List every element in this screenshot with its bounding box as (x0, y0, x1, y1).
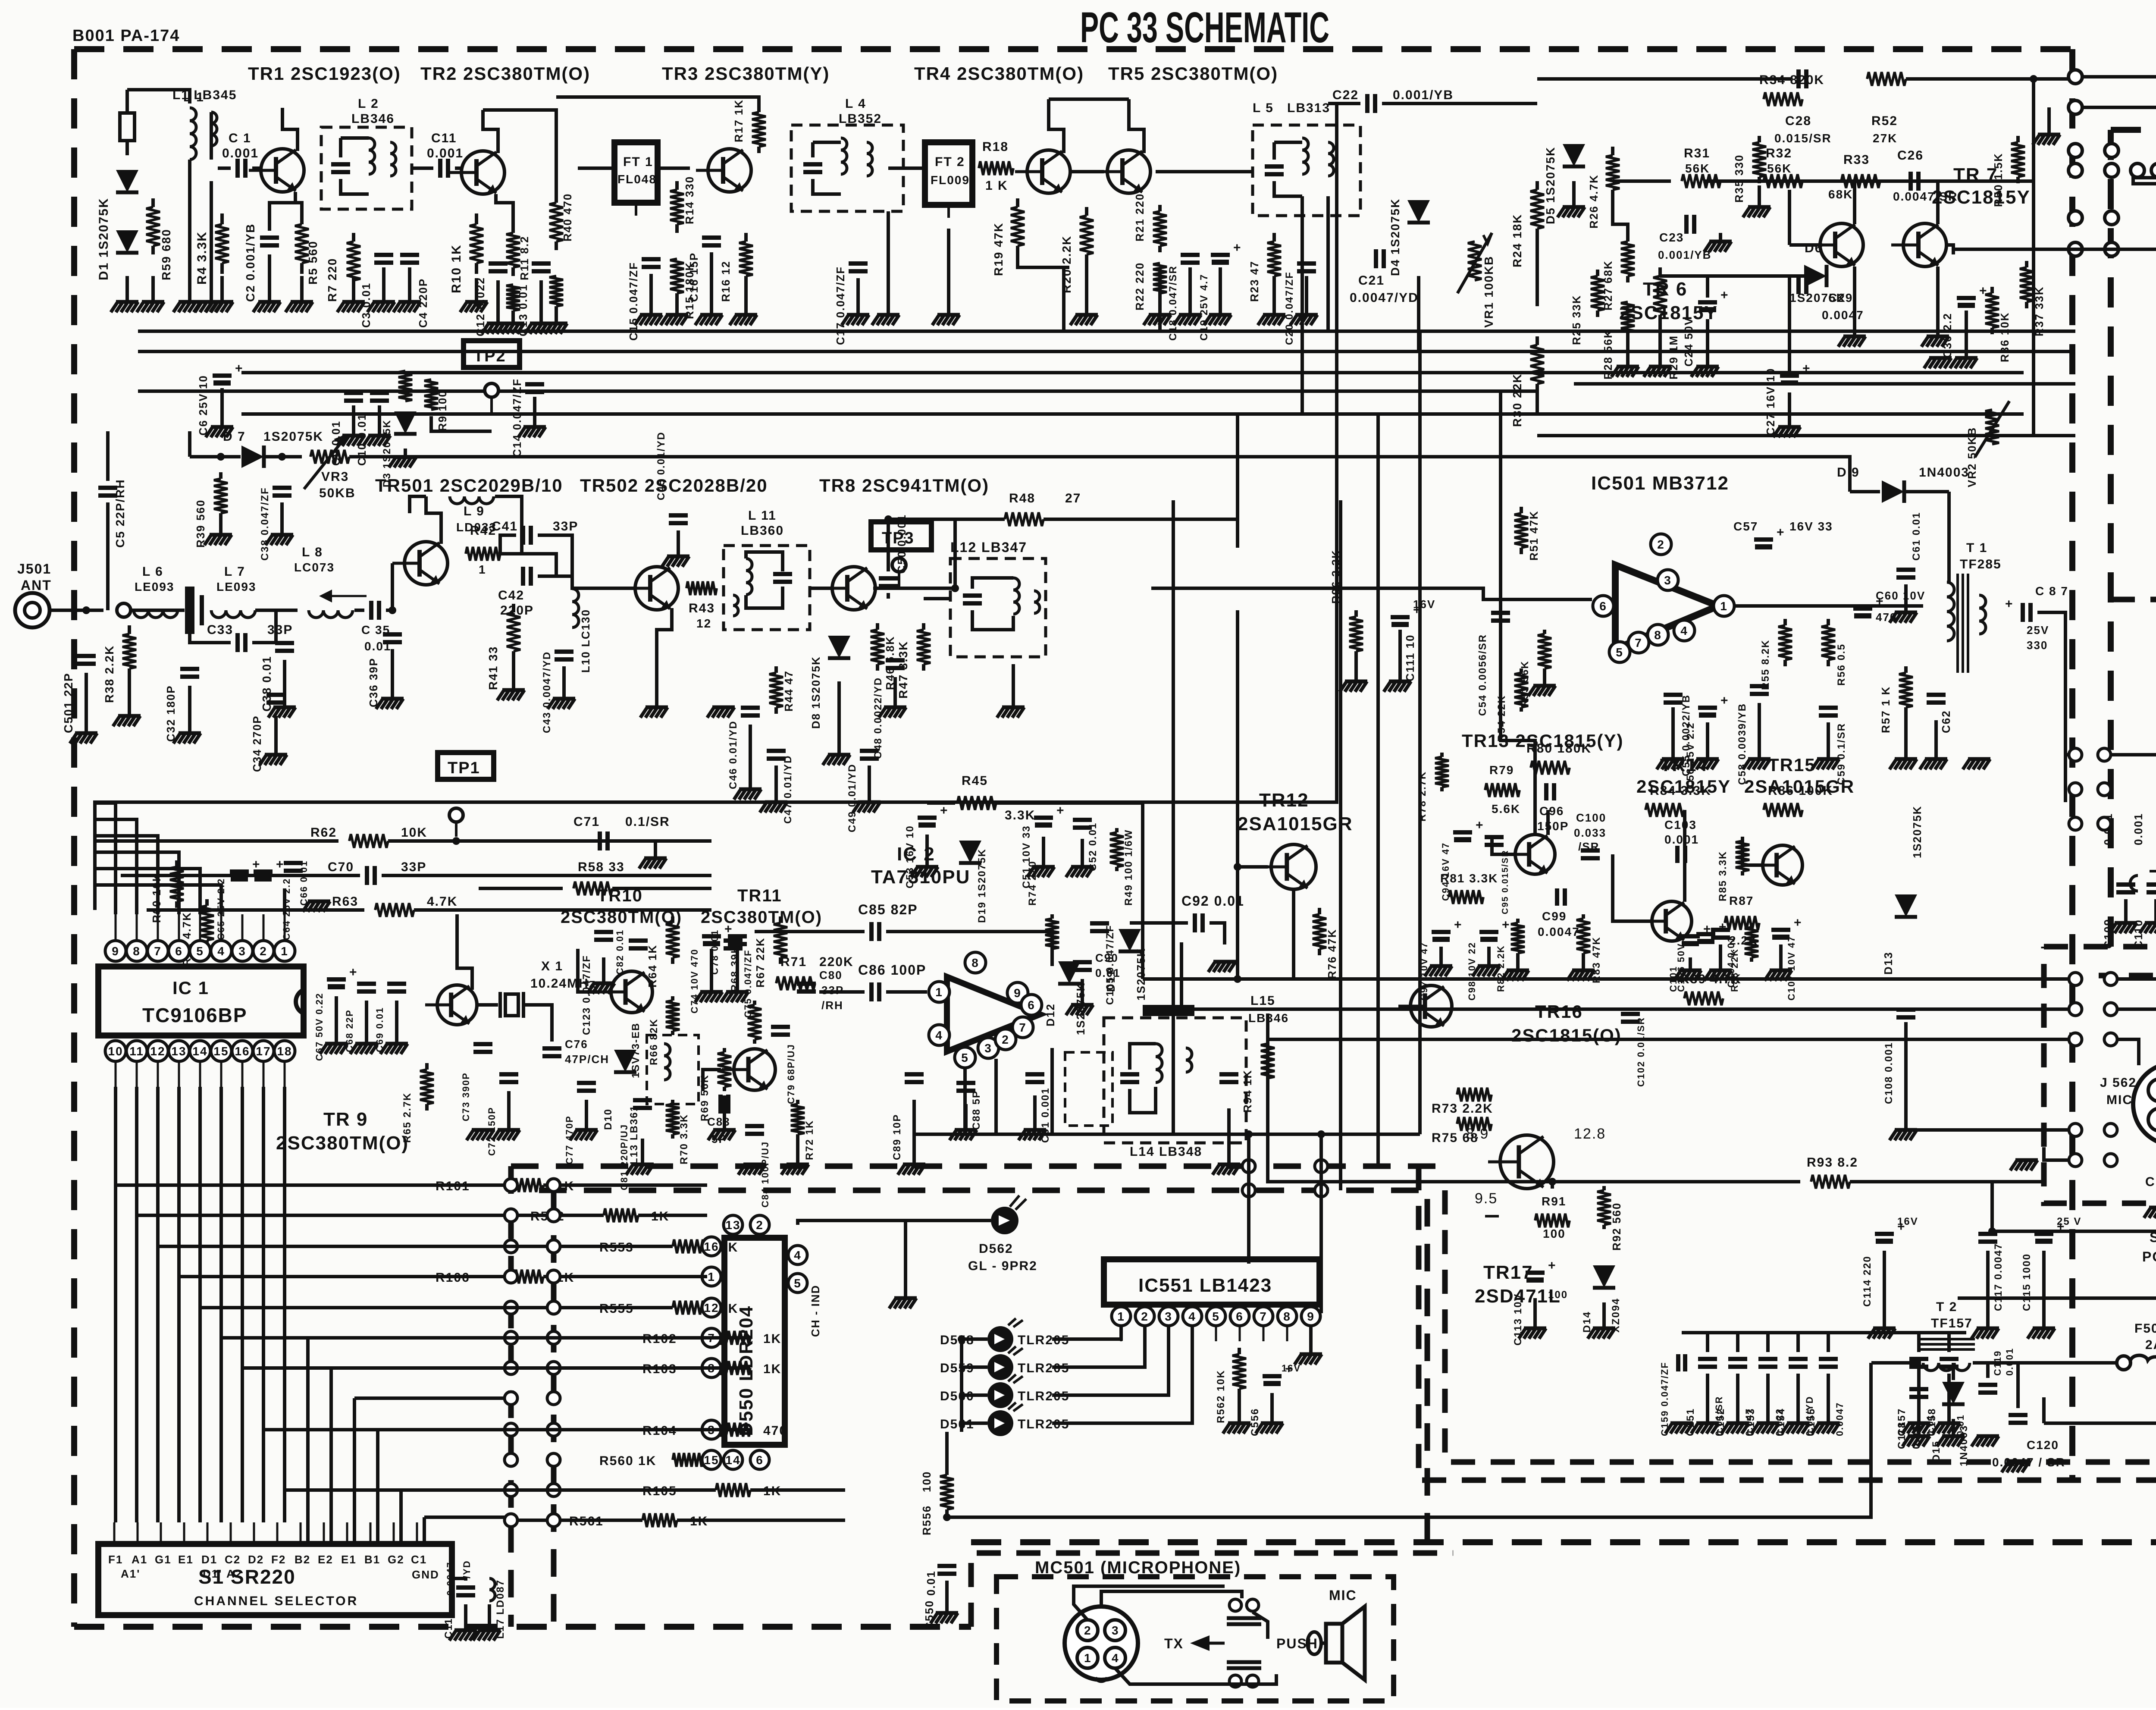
label C83b (711, 1133, 727, 1145)
label R562 (1215, 1370, 1227, 1423)
wire tr6 base (1789, 243, 1822, 247)
capacitor C556 10 (1263, 1362, 1294, 1386)
ground G-C30 (1950, 311, 1977, 368)
svg-text:L1 LB345: L1 LB345 (172, 88, 237, 102)
svg-text:TP2: TP2 (473, 347, 506, 365)
pin 4 IC501 pin (1674, 620, 1695, 641)
resistor R552 1K (604, 1208, 638, 1222)
board outline B001 PA-174 bottom-left (74, 1624, 971, 1630)
label C22v (1393, 88, 1454, 102)
wire R555 1K in (543, 1306, 673, 1309)
ground G-D14 (1588, 1302, 1615, 1339)
svg-text:D 7: D 7 (223, 430, 246, 444)
pin 2 IC2 pin (995, 1029, 1016, 1050)
wire vol wire2 (2081, 106, 2156, 109)
label R81 (1440, 872, 1498, 885)
ground G-C159 (1665, 1423, 1693, 1434)
connector pad left col (505, 1331, 560, 1344)
svg-text:TR12: TR12 (1259, 790, 1309, 811)
label R52 (1871, 114, 1898, 128)
inductor L9 LD033 (450, 496, 494, 504)
svg-text:10.24MHz: 10.24MHz (530, 976, 596, 991)
ground G-C3 (367, 267, 395, 312)
svg-text:L 7: L 7 (224, 565, 245, 579)
ground G-R72 (781, 1134, 809, 1175)
capacitor C101 (1681, 922, 1712, 946)
svg-text:/RH: /RH (821, 999, 843, 1012)
resistor R38 2.2K (122, 625, 136, 677)
wire stair 6 (241, 1087, 244, 1368)
wire c28 line (1537, 77, 1792, 81)
label C92 (1181, 893, 1244, 909)
pin 14 D550 pin (724, 1450, 743, 1469)
wire R555 1K out (705, 1306, 709, 1309)
svg-text:14: 14 (192, 1045, 207, 1058)
junction j-d7 (217, 453, 225, 461)
board outline B001 PA-174 left (71, 49, 77, 1627)
svg-text:C68 22P: C68 22P (344, 1009, 355, 1052)
ground G-C12 (482, 280, 509, 334)
pin 2 IC501 pin (1651, 534, 1671, 555)
svg-text:27: 27 (1065, 491, 1081, 505)
wire L4 conn (813, 141, 841, 144)
label C117 (1993, 1243, 2004, 1311)
capacitor C23 0.001/YB (1686, 215, 1694, 234)
svg-text:+: + (1502, 918, 1510, 932)
label D5 (1544, 147, 1557, 224)
ground G-C56 (1691, 722, 1719, 769)
label C38 (260, 656, 273, 712)
pin 3 IC501 pin (1658, 570, 1678, 590)
svg-text:TR5 2SC380TM(O): TR5 2SC380TM(O) (1108, 63, 1278, 84)
capacitor C158 (1940, 1359, 1959, 1367)
label R76 (1326, 929, 1338, 979)
label R69 (699, 1074, 711, 1121)
label C158 val (1955, 1414, 1966, 1436)
inductor L17 LD087 (489, 1578, 495, 1601)
label C550b (924, 1570, 937, 1596)
svg-text:C64 25V 2.2: C64 25V 2.2 (281, 878, 292, 940)
wire TR8 out (873, 587, 955, 590)
label TR17b (1475, 1286, 1561, 1307)
label TR10 (597, 886, 643, 905)
resistor R35 330 (1752, 136, 1766, 183)
label F501b (2145, 1338, 2156, 1352)
transistor TR8 (820, 567, 875, 610)
ground G-C62 (1920, 720, 1947, 769)
label TR2 (420, 63, 590, 84)
svg-text:R40 470: R40 470 (561, 193, 574, 242)
ground G-D5 (1557, 181, 1585, 217)
label C78 (709, 929, 720, 975)
wire IC1 pin bus 4 (198, 1087, 202, 1522)
pin 3 D550 pin (702, 1420, 721, 1439)
label R19 (992, 222, 1005, 276)
label L4b (839, 112, 882, 126)
svg-text:5: 5 (1212, 1310, 1220, 1323)
label R93 (1807, 1155, 1858, 1170)
label D15 (1930, 1440, 1942, 1462)
LED D560 TLR205 (940, 1374, 1069, 1408)
inductor L11 sec (733, 595, 738, 616)
connector pad right col (2069, 973, 2117, 985)
svg-text:2SC380TM(O): 2SC380TM(O) (561, 908, 682, 927)
wire c71 gnd wire (614, 841, 655, 858)
wire r58 wire (479, 887, 563, 890)
wire ladder left join 1 (137, 1214, 474, 1217)
wire ant wire (50, 609, 103, 612)
svg-text:8: 8 (971, 956, 979, 970)
svg-text:GND: GND (412, 1568, 439, 1581)
label C26 (1897, 148, 1924, 163)
wire h r31 r32 (1613, 179, 1671, 183)
svg-text:8: 8 (133, 944, 141, 958)
svg-text:L15: L15 (1250, 994, 1275, 1008)
wire R106 1K out (543, 1275, 707, 1278)
junction j-ant (82, 606, 90, 614)
label R23 (1248, 260, 1261, 302)
label C50 (895, 514, 908, 574)
capacitor C118 0.001 (1909, 1389, 1928, 1397)
svg-text:1S2075K: 1S2075K (263, 430, 323, 444)
capacitor C100 (1581, 850, 1600, 858)
label C104 (1726, 936, 1736, 988)
inductor T1 sec (1979, 595, 1986, 634)
ground G-C71 (639, 858, 667, 869)
svg-text:/YD: /YD (461, 1560, 472, 1578)
ground G-C550 (931, 1581, 958, 1623)
microphone MIC symbol (1307, 1588, 1365, 1680)
capacitor C30 25V 2.2 (1957, 284, 1988, 308)
ground G-FT2 (932, 229, 960, 325)
wire IC1 pin bus 6 (241, 1087, 244, 1522)
label C109 (2102, 919, 2115, 949)
resistor R9 100 (424, 380, 438, 410)
wire C5 dn (106, 502, 110, 610)
resistor R24 18K (1530, 181, 1544, 237)
svg-text:IC 1: IC 1 (172, 978, 209, 998)
wire S1 riser 4 (399, 1490, 403, 1544)
pin 1 IC1 top (274, 941, 295, 961)
wire tr7 c (1936, 181, 1940, 224)
label C111b (1413, 598, 1435, 611)
wire h 2630 (914, 1133, 1420, 1136)
wire stair 7 (262, 1087, 265, 1430)
wire tr10 base (578, 949, 598, 992)
wire C157 up (1917, 1333, 1921, 1352)
svg-text:L 2: L 2 (358, 97, 379, 111)
label C550 (923, 1600, 936, 1630)
label C112c (461, 1560, 472, 1578)
svg-text:L 8: L 8 (302, 545, 323, 559)
wire TR8-L12 line (924, 597, 950, 600)
diode D2 1S2075K (116, 230, 138, 253)
svg-text:6: 6 (1028, 998, 1035, 1012)
capacitor C56 2.2 (1698, 693, 1729, 718)
label C123 (581, 955, 592, 1035)
svg-text:D562: D562 (979, 1242, 1013, 1256)
ground G-R22 (1144, 302, 1171, 325)
capacitor C2 (260, 238, 279, 245)
svg-text:D19 1S2075K: D19 1S2075K (976, 848, 988, 923)
svg-text:LE093: LE093 (216, 580, 257, 593)
capacitor C113 100 (1526, 1258, 1557, 1283)
transformer L15 LB346 box (1104, 1018, 1246, 1143)
svg-text:3: 3 (238, 944, 246, 958)
wire mc wiring 3 (1115, 1668, 1276, 1684)
svg-text:R68 39K: R68 39K (729, 945, 741, 992)
wire mc wiring 2 (1074, 1586, 1225, 1620)
wire TR2-FT1 (578, 166, 614, 170)
svg-text:0.001: 0.001 (1664, 833, 1699, 846)
resistor R89 4.7K (1684, 991, 1723, 1005)
label C57 (1733, 520, 1758, 533)
capacitor C46 (741, 708, 760, 715)
IC1 bot pin lead 17 (263, 1062, 265, 1087)
label C80 (819, 969, 843, 982)
label C29v (1822, 308, 1864, 322)
label C152 lab (1715, 1408, 1727, 1436)
svg-text:C52 0.01: C52 0.01 (1087, 822, 1099, 871)
label L9 (464, 504, 485, 518)
ground G-mic (2010, 1160, 2038, 1170)
label S501 (2150, 1230, 2156, 1245)
svg-text:+: + (940, 803, 949, 818)
resistor R72 1K (791, 1100, 805, 1139)
svg-text:+: + (1719, 920, 1727, 934)
S1 pin A1 (132, 1522, 147, 1566)
wire R103 1K in (586, 1366, 716, 1370)
ground G-C32 (173, 686, 201, 744)
wire L2-C11 (412, 166, 433, 170)
IC551 pin lead 6 (1239, 1326, 1241, 1341)
plus C87 (2005, 597, 2014, 611)
wire long v 2740 (1180, 942, 1183, 1009)
connector pad T3 (2068, 163, 2082, 177)
capacitor C91 0.001 (1025, 1074, 1044, 1082)
junction j-r556 (943, 1513, 951, 1521)
diode D5 1S2075K (1563, 144, 1585, 166)
svg-text:C501 22P: C501 22P (62, 672, 75, 733)
capacitor C54 (1491, 613, 1510, 621)
svg-text:R18: R18 (982, 140, 1009, 154)
ground G-C556 (1256, 1393, 1283, 1434)
label R51 (1527, 510, 1540, 561)
pin 8 IC551 pin (1278, 1307, 1297, 1326)
connector pad right col (2069, 1123, 2117, 1136)
ground G-C90 (1066, 979, 1094, 1015)
inductor T1 pri (1947, 582, 1954, 641)
wire stair 1 (135, 1087, 138, 1215)
wire R105 1K in (586, 1488, 716, 1492)
speaker section box (2099, 599, 2156, 976)
svg-text:C123 0.047/ZF: C123 0.047/ZF (581, 955, 592, 1035)
wire trunk E (798, 1221, 906, 1225)
pin 12 IC1 bot (147, 1041, 168, 1061)
svg-text:5.6K: 5.6K (1492, 802, 1520, 816)
svg-text:9: 9 (1307, 1310, 1315, 1323)
capacitor C-L12 (963, 596, 982, 603)
label C96 (1539, 804, 1564, 818)
resistor R79 5.6K (1485, 783, 1520, 797)
capacitor C71 0.1/SR (600, 831, 608, 850)
pin 8 IC501 pin (1648, 624, 1668, 645)
IC551 pin lead 1 (1120, 1326, 1122, 1341)
label TR9 (323, 1109, 368, 1130)
mic connector box (2044, 947, 2156, 1203)
wire ladder left join 8 (285, 1488, 586, 1492)
label C153 lab (1745, 1408, 1757, 1436)
label R94 (1241, 1070, 1254, 1113)
svg-text:C2 0.001/YB: C2 0.001/YB (244, 223, 257, 302)
wire tr12 base wire (1238, 865, 1268, 869)
svg-text:CHANNEL SELECTOR: CHANNEL SELECTOR (194, 1594, 358, 1608)
wire S1 riser 2 (353, 1398, 356, 1544)
svg-text:TX: TX (1164, 1636, 1184, 1651)
wire dc minus rail (2042, 1397, 2046, 1423)
resistor R41 33 (507, 604, 520, 660)
svg-text:C41: C41 (492, 519, 518, 533)
pin 4 IC551 pin (1183, 1307, 1202, 1326)
wire led src2 (960, 1339, 963, 1432)
svg-text:C49 0.01/YD: C49 0.01/YD (846, 764, 858, 832)
label C107 (1786, 936, 1797, 1001)
transistor TR6 (1808, 223, 1863, 267)
capacitor C-L4 (803, 164, 822, 172)
svg-text:C61 0.01: C61 0.01 (1911, 512, 1922, 561)
label C87 (2035, 584, 2068, 598)
svg-text:R91: R91 (1542, 1195, 1566, 1208)
label L7 (224, 565, 245, 579)
svg-text:C53 16V 10: C53 16V 10 (904, 825, 916, 888)
connector pad ant (117, 603, 131, 617)
S1 pin G2 (388, 1522, 404, 1566)
wire R102 1K in (586, 1336, 716, 1340)
capacitor C109 0.001 (2116, 885, 2135, 892)
svg-text:R11 8.2: R11 8.2 (518, 235, 531, 280)
ground G-C48 (879, 677, 906, 718)
wire C11-TR2 (455, 166, 461, 170)
diode D9 1N4003 lead (1850, 492, 1949, 561)
label R59 text (160, 229, 173, 280)
label R65 (401, 1092, 413, 1143)
svg-text:C109: C109 (2102, 919, 2115, 949)
ground G-C123 (587, 957, 615, 994)
svg-text:47P/CH: 47P/CH (565, 1053, 609, 1066)
svg-text:4: 4 (935, 1029, 943, 1042)
svg-text:56K: 56K (1685, 162, 1710, 175)
label R106 1K val (556, 1271, 574, 1285)
wire bus H1 (138, 350, 2075, 353)
label C87v (2027, 624, 2049, 637)
label TR11b (701, 908, 822, 927)
wire L4 conn3 (813, 179, 841, 194)
label C110b (2132, 813, 2145, 845)
resistor R36 10K (1985, 287, 1999, 334)
wire S1 riser row b (424, 1515, 505, 1519)
wire d7 wire (190, 455, 241, 458)
label R37 (2033, 286, 2046, 336)
svg-text:LE093: LE093 (135, 580, 175, 593)
svg-text:C20 0.047/ZF: C20 0.047/ZF (1284, 271, 1295, 345)
resistor R19 47K (1011, 198, 1025, 254)
capacitor C88 5P (956, 1083, 975, 1091)
connector pad T1 (2068, 100, 2082, 114)
wire s501 wire (1992, 1230, 2156, 1233)
TR17 board outer (1445, 1190, 2156, 1462)
wire ic1 ctl 3 (95, 852, 179, 914)
capacitor C61 0.01 (1896, 570, 1915, 577)
svg-text:R59 680: R59 680 (160, 229, 173, 280)
label R73 (1432, 1101, 1493, 1116)
svg-text:R21 220: R21 220 (1133, 193, 1146, 242)
label R560 (599, 1454, 656, 1468)
ground G-squelchline (2033, 135, 2060, 145)
svg-text:C115 1000: C115 1000 (2021, 1253, 2033, 1311)
wire tr9 c up (457, 914, 472, 990)
label R555 1K lab (599, 1302, 634, 1316)
label R28 (1601, 329, 1614, 380)
capacitor C3 0.01 (374, 255, 393, 263)
svg-text:TR16: TR16 (1535, 1001, 1583, 1022)
label C153 val (1774, 1408, 1785, 1436)
svg-text:TP1: TP1 (448, 759, 480, 777)
capacitor C4 220P (400, 255, 419, 263)
wire s1 gnd wire (452, 1578, 466, 1581)
svg-text:G2: G2 (388, 1553, 404, 1566)
ground G-C52 (1066, 839, 1094, 877)
resistor R85 3.3K (1736, 837, 1749, 875)
pin 13 IC1 bot (169, 1041, 189, 1061)
ground G-L17 (473, 1604, 501, 1641)
wire C151 up (1706, 1333, 1709, 1352)
ground G-C107 (1764, 944, 1792, 981)
resistor R51 47K (1514, 507, 1528, 554)
capacitor C62 0.01 (1927, 695, 1946, 703)
svg-text:6: 6 (1599, 599, 1607, 613)
label D14b (1610, 1298, 1622, 1333)
svg-text:100: 100 (1548, 1289, 1568, 1301)
ground G-R82 (1501, 955, 1529, 981)
label R33v (1828, 188, 1853, 201)
svg-text:D1 1S2075K: D1 1S2075K (97, 198, 111, 280)
svg-text:R55 8.2K: R55 8.2K (1760, 640, 1771, 690)
svg-text:0.001: 0.001 (427, 146, 464, 160)
label R102 1K val (763, 1332, 781, 1346)
label C84 (760, 1141, 771, 1208)
label C61 (1911, 512, 1922, 561)
svg-text:R72 1K: R72 1K (804, 1120, 815, 1160)
label R104 470 lab (642, 1424, 677, 1438)
svg-text:C2: C2 (225, 1553, 241, 1566)
svg-text:R19 47K: R19 47K (992, 222, 1005, 276)
svg-text:+: + (2005, 597, 2014, 611)
capacitor C1 0.001 (238, 159, 245, 178)
capacitor C24 50V 1 (1698, 288, 1729, 312)
svg-text:C99: C99 (1542, 910, 1567, 923)
wire t1 top feed (1947, 492, 1951, 561)
svg-text:D1: D1 (201, 1553, 217, 1566)
svg-text:C16 15P: C16 15P (687, 252, 700, 302)
svg-text:+: + (1056, 803, 1065, 818)
capacitor C19 4.7 (1211, 241, 1242, 265)
svg-text:LB313: LB313 (1287, 101, 1330, 115)
svg-text:R47 3.3K: R47 3.3K (896, 641, 910, 699)
wire ic2 v1 (963, 1067, 967, 1134)
label C113b (1548, 1289, 1568, 1301)
svg-text:FL009: FL009 (931, 173, 970, 187)
svg-text:C84 100P/UJ: C84 100P/UJ (760, 1141, 771, 1208)
